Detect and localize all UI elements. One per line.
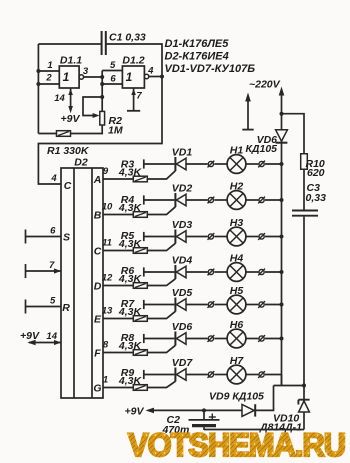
svg-text:D2: D2 — [74, 157, 88, 169]
wire top from D1.1 inputs node to C1 — [38, 43, 101, 45]
+9V supply pin 14 of D2 — [20, 330, 61, 345]
svg-text:4,3K: 4,3K — [118, 375, 143, 387]
connector X7.1 — [208, 371, 215, 378]
thyristor VD4 — [172, 255, 193, 280]
wire lamp to connector — [246, 199, 259, 201]
svg-text:S: S — [63, 232, 70, 244]
thyristor VD7 — [172, 357, 194, 382]
svg-text:D1-К176ЛЕ5: D1-К176ЛЕ5 — [165, 38, 230, 50]
terminal cathode row 5 — [144, 300, 175, 309]
node D1.1 out junction — [100, 75, 104, 79]
resistor R8 4,3K — [118, 332, 147, 355]
label parts list — [165, 38, 256, 75]
svg-text:F: F — [94, 347, 101, 359]
svg-text:5: 5 — [50, 296, 56, 307]
svg-text:14: 14 — [54, 93, 65, 104]
terminal count input pin 7 — [26, 260, 62, 278]
thyristor VD1 — [172, 147, 193, 172]
svg-text:6: 6 — [110, 74, 116, 85]
svg-text:R: R — [62, 302, 70, 314]
thyristor VD6 — [172, 321, 193, 346]
wire D1.2 output pin 4 — [149, 76, 162, 78]
resistor R6 4,3K — [118, 265, 147, 288]
wire gate output A — [103, 178, 134, 180]
terminal cathode row 3 — [144, 232, 175, 241]
thyristor VD2 — [172, 183, 193, 208]
svg-text:13: 13 — [102, 306, 113, 317]
wire connector to lamp — [214, 338, 227, 340]
svg-text:620: 620 — [307, 167, 325, 179]
svg-text:D2-К176ИЕ4: D2-К176ИЕ4 — [165, 51, 229, 63]
wire vertical to R2 — [101, 71, 103, 112]
wire C3 to supply node — [303, 217, 305, 386]
label output C pin 11 — [94, 238, 112, 258]
terminal S input pin 6 — [26, 226, 62, 244]
svg-text:Н1: Н1 — [230, 145, 244, 157]
svg-text:D: D — [94, 280, 102, 292]
node rail row 1 — [280, 162, 284, 166]
wire VD9 branch — [148, 386, 274, 411]
pin 14 supply stub of D1.1 with +9V arrow — [54, 89, 80, 126]
label output G pin 1 — [93, 375, 108, 395]
label pin 4 — [50, 173, 57, 184]
connector X2.1 — [208, 197, 215, 204]
svg-text:1: 1 — [103, 375, 108, 386]
svg-text:VD4: VD4 — [172, 255, 193, 267]
svg-text:14: 14 — [46, 331, 57, 342]
svg-text:4,3K: 4,3K — [118, 202, 143, 214]
wire gate to thyristor — [147, 279, 175, 286]
svg-text:1M: 1M — [108, 125, 123, 137]
svg-text:6: 6 — [50, 226, 56, 237]
connector X6.2 — [258, 335, 265, 342]
svg-text:Н7: Н7 — [230, 355, 245, 367]
resistor R1 330K — [47, 131, 90, 157]
wire D1.1 input pin 2 — [38, 73, 59, 85]
svg-text:3: 3 — [83, 66, 89, 77]
wire connector to rail — [265, 338, 282, 340]
label output D pin 12 — [94, 273, 113, 293]
svg-text:~220V: ~220V — [249, 79, 281, 91]
wire gate to thyristor — [147, 345, 175, 352]
lamp H3 — [227, 217, 246, 246]
svg-text:9: 9 — [103, 166, 109, 177]
terminal R input pin 5 — [26, 296, 62, 314]
svg-text:4,3K: 4,3K — [118, 238, 143, 250]
wire connector to lamp — [214, 199, 227, 201]
label output A pin 9 — [93, 166, 109, 186]
svg-text:C1 0,33: C1 0,33 — [109, 32, 146, 44]
lamp H7 — [227, 355, 246, 384]
wire anode to connector — [186, 236, 208, 238]
label output E pin 13 — [94, 306, 113, 326]
svg-text:5: 5 — [110, 60, 116, 71]
terminal cathode row 2 — [144, 195, 175, 204]
wire anode to connector — [186, 374, 208, 376]
node R10 branch — [280, 112, 284, 116]
connector X1.2 — [258, 161, 265, 168]
svg-text:1: 1 — [63, 70, 70, 84]
wire lamp to connector — [246, 304, 259, 306]
wire mains rail right — [279, 87, 285, 386]
node rail row 4 — [280, 270, 284, 274]
svg-text:+9V: +9V — [61, 113, 81, 125]
connector X5.1 — [208, 301, 215, 308]
svg-text:C: C — [64, 180, 72, 192]
thyristor VD3 — [172, 219, 193, 244]
svg-text:0,33: 0,33 — [306, 192, 327, 204]
label ~220V — [249, 79, 281, 91]
svg-text:VD5: VD5 — [172, 287, 193, 299]
wire connector to lamp — [214, 304, 227, 306]
wire gate output F — [103, 352, 134, 354]
wire left vertical joining D1.1 inputs — [37, 44, 39, 134]
node R2 wiper junction — [100, 95, 104, 99]
variable resistor R2 1M — [83, 97, 123, 137]
svg-text:+9V: +9V — [20, 330, 40, 342]
lamp H2 — [227, 181, 246, 210]
wire gate to thyristor — [147, 243, 175, 250]
wire connector to rail — [265, 163, 282, 165]
svg-text:VOTSHEMA.RU: VOTSHEMA.RU — [128, 427, 345, 463]
connector X2.2 — [258, 197, 265, 204]
wire lamp to connector — [246, 163, 259, 165]
svg-text:1: 1 — [47, 60, 52, 71]
node C2 tap — [202, 408, 206, 412]
wire anode to connector — [186, 338, 208, 340]
svg-text:VD9 КД105: VD9 КД105 — [209, 391, 264, 403]
mains terminal ~220V left — [242, 93, 253, 130]
wire lamp to connector — [246, 236, 259, 238]
wire connector to rail — [265, 271, 282, 273]
wire oscillator output to D2 clock input C — [38, 77, 162, 185]
resistor R10 620 — [301, 154, 325, 179]
svg-text:1: 1 — [126, 70, 133, 84]
svg-text:VD1-VD7-КУ107Б: VD1-VD7-КУ107Б — [165, 63, 256, 75]
connector X6.1 — [208, 335, 215, 342]
logic gate D1.1 — [59, 55, 89, 89]
svg-text:4,3K: 4,3K — [118, 306, 143, 318]
wire lamp to connector — [246, 338, 259, 340]
wire branch to R10 — [282, 114, 305, 154]
connector X3.1 — [208, 233, 215, 240]
connector X5.2 — [258, 301, 265, 308]
wire connector to lamp — [214, 271, 227, 273]
terminal cathode row 1 — [144, 159, 175, 168]
node rail row 6 — [280, 337, 284, 341]
wire D1.1 output pin 3 to D1.2 inputs — [84, 76, 103, 78]
connector X4.2 — [258, 269, 265, 276]
capacitor C2 470m — [162, 410, 220, 436]
wire gate output E — [103, 318, 134, 320]
resistor R9 4,3K — [118, 367, 147, 390]
label output B pin 10 — [94, 202, 113, 222]
svg-text:VD3: VD3 — [172, 219, 193, 231]
svg-text:КД105: КД105 — [245, 143, 277, 155]
wire connector to lamp — [214, 163, 227, 165]
connector X4.1 — [208, 269, 215, 276]
svg-text:7: 7 — [49, 260, 55, 271]
wire supply node horizontal — [274, 375, 305, 386]
svg-text:VD1: VD1 — [172, 147, 193, 159]
lamp H6 — [227, 319, 246, 348]
svg-text:A: A — [93, 174, 102, 186]
wire from C1 to oscillator output node — [106, 44, 162, 77]
svg-text:4,3K: 4,3K — [118, 167, 143, 179]
wire D1.2 input pin 5 — [102, 60, 122, 71]
svg-text:Н2: Н2 — [230, 181, 244, 193]
svg-text:4: 4 — [50, 173, 57, 184]
svg-text:4,3K: 4,3K — [118, 340, 143, 352]
svg-text:Н6: Н6 — [230, 319, 244, 331]
resistor R3 4,3K — [118, 159, 147, 182]
node rail row 2 — [280, 198, 284, 202]
wire R2 bottom to feedback — [38, 125, 102, 134]
svg-text:11: 11 — [102, 238, 112, 249]
svg-text:D1.1: D1.1 — [60, 55, 82, 67]
svg-text:D1.2: D1.2 — [122, 55, 144, 67]
svg-text:8: 8 — [103, 340, 109, 351]
terminal cathode row 7 — [144, 370, 175, 379]
+9V output arrow — [125, 406, 154, 418]
wire gate output B — [103, 214, 134, 216]
svg-text:G: G — [93, 382, 101, 394]
node pin6 junction — [100, 82, 104, 86]
svg-text:R1 330K: R1 330K — [47, 145, 90, 157]
wire connector to rail — [265, 236, 282, 238]
lamp H5 — [227, 285, 246, 314]
wire anode to connector — [186, 304, 208, 306]
thyristor VD5 — [172, 287, 193, 312]
terminal cathode row 4 — [144, 267, 175, 276]
wire connector to lamp — [214, 374, 227, 376]
wire gate to thyristor — [147, 171, 175, 179]
capacitor C3 0,33 — [292, 182, 326, 216]
svg-text:VD7: VD7 — [172, 357, 194, 369]
wire connector to rail — [265, 374, 282, 376]
wire anode to connector — [186, 271, 208, 273]
svg-text:C: C — [94, 245, 102, 257]
svg-text:VD2: VD2 — [172, 183, 193, 195]
svg-text:+9V: +9V — [125, 406, 145, 418]
connector X1.1 — [208, 161, 215, 168]
pin 7 ground stub of D1.2 — [127, 89, 142, 111]
wire D1.2 input pin 6 — [102, 74, 122, 85]
node rail row 5 — [280, 303, 284, 307]
resistor R7 4,3K — [118, 298, 147, 321]
node pin1 tap — [36, 69, 40, 73]
svg-text:VD6: VD6 — [172, 321, 193, 333]
terminal cathode row 6 — [144, 334, 175, 343]
svg-text:Н3: Н3 — [230, 217, 244, 229]
wire gate output D — [103, 285, 134, 287]
svg-text:Н5: Н5 — [230, 285, 244, 297]
wire connector to rail — [265, 304, 282, 306]
wire gate to thyristor — [147, 207, 175, 215]
connector X3.2 — [258, 233, 265, 240]
diode VD6 КД105 — [245, 130, 287, 155]
wire gate to thyristor — [147, 381, 175, 387]
wire lamp to connector — [246, 271, 259, 273]
svg-text:4,3K: 4,3K — [118, 273, 143, 285]
wire gate output G — [103, 387, 134, 389]
counter D2 — [61, 157, 103, 399]
wire lamp to connector — [246, 374, 259, 376]
svg-text:7: 7 — [136, 91, 142, 102]
resistor R5 4,3K — [118, 230, 147, 253]
lamp H1 — [227, 145, 246, 174]
lamp H4 — [227, 253, 246, 282]
zener diode VD10 Д814Д-1 — [259, 386, 310, 434]
node rail row 3 — [280, 235, 284, 239]
svg-text:10: 10 — [102, 202, 113, 213]
connector X7.2 — [258, 371, 265, 378]
resistor R4 4,3K — [118, 194, 147, 217]
wire bottom return — [204, 429, 304, 431]
wire connector to rail — [265, 199, 282, 201]
diode VD9 КД105 — [209, 391, 264, 417]
svg-text:2: 2 — [45, 73, 52, 84]
svg-text:12: 12 — [102, 273, 113, 284]
wire gate output C — [103, 250, 134, 252]
wire anode to connector — [186, 199, 208, 201]
wire R10 to C3 — [303, 169, 305, 209]
svg-text:B: B — [94, 209, 102, 221]
wire gate to thyristor — [147, 311, 175, 318]
node supply junction — [302, 384, 306, 388]
node oscillator output — [160, 75, 164, 79]
logic gate D1.2 — [122, 55, 154, 89]
wire connector to lamp — [214, 236, 227, 238]
label output F pin 8 — [94, 340, 109, 360]
svg-text:4: 4 — [147, 66, 154, 77]
wire D1.1 input pin 1 — [38, 60, 59, 71]
wire anode to connector — [186, 163, 208, 165]
node pin2 tap — [36, 82, 40, 86]
svg-text:Н4: Н4 — [230, 253, 244, 265]
watermark votshema.ru — [128, 427, 345, 463]
capacitor C1 0,33 — [102, 31, 146, 55]
